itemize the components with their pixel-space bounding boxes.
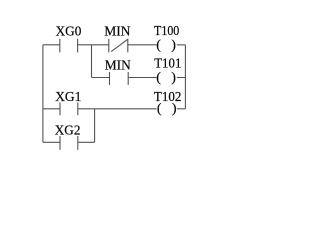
contact XG2 bar1 (59, 136, 61, 150)
wire rung2 segment B (128, 77, 156, 79)
svg-text:XG1: XG1 (55, 89, 81, 104)
wire rung2 segment C coil T101 to right rail (177, 77, 186, 79)
wire rung4 segment B (78, 141, 95, 143)
contact XG0 bar2 (77, 39, 79, 53)
left power rail (42, 45, 44, 142)
contact MIN NC bar2 (127, 39, 129, 53)
wire rung1 segment B (78, 44, 109, 46)
contact XG2 bar2 (77, 136, 79, 150)
svg-text:(: ( (157, 102, 162, 117)
svg-text:T101: T101 (154, 55, 181, 70)
wire rung1 segment D coil T100 to right rail (177, 44, 186, 46)
wire rung1 segment C (128, 44, 157, 46)
contact MIN NO bar2 (127, 72, 129, 85)
svg-text:XG0: XG0 (56, 24, 82, 39)
contact MIN NO bar1 (109, 72, 111, 85)
wire rung1 segment A (43, 44, 60, 46)
wire parallel merge vertical (94, 109, 96, 143)
wire branch vertical to rung2 (91, 45, 93, 78)
wire rung3 segment B (78, 108, 157, 110)
svg-text:): ) (172, 102, 177, 117)
wire rung4 segment A (43, 141, 60, 143)
svg-text:): ) (171, 70, 176, 85)
svg-text:T100: T100 (154, 23, 180, 38)
svg-text:MIN: MIN (105, 57, 131, 72)
right vertical bus (184, 45, 186, 109)
contact XG0 bar1 (59, 39, 61, 53)
svg-text:(: ( (156, 70, 161, 85)
wire rung3 segment A (43, 108, 60, 110)
contact MIN NC bar1 (108, 39, 110, 53)
contact XG1 bar2 (77, 103, 79, 116)
svg-text:XG2: XG2 (55, 123, 81, 138)
svg-text:MIN: MIN (104, 24, 130, 39)
wire rung2 segment A (92, 77, 110, 79)
svg-text:(: ( (156, 38, 161, 53)
contact MIN NC slash (111, 39, 128, 51)
contact XG1 bar1 (59, 103, 61, 116)
wire rung3 segment C coil T102 to right rail (177, 108, 186, 110)
svg-text:): ) (171, 38, 176, 53)
